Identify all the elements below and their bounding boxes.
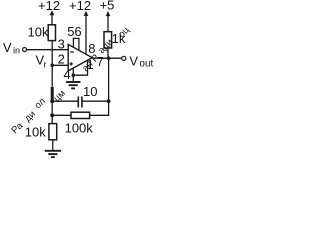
svg-text:r: r (44, 59, 47, 69)
svg-text:ол: ол (33, 96, 48, 111)
svg-text:4: 4 (64, 67, 71, 82)
svg-text:+12: +12 (69, 0, 91, 13)
svg-text:Ра: Ра (10, 120, 26, 136)
svg-text:V: V (129, 53, 138, 68)
svg-text:out: out (139, 59, 153, 70)
svg-text:6: 6 (74, 24, 81, 39)
svg-text:2: 2 (58, 52, 65, 67)
svg-text:3: 3 (58, 37, 65, 52)
svg-text:7: 7 (97, 54, 104, 69)
svg-text:10: 10 (83, 84, 97, 99)
svg-text:10k: 10k (25, 124, 46, 139)
svg-text:+5: +5 (100, 0, 115, 12)
svg-text:1: 1 (87, 57, 94, 72)
svg-text:+12: +12 (38, 0, 60, 13)
svg-text:1k: 1k (112, 31, 126, 46)
svg-text:V: V (3, 40, 12, 55)
svg-text:ди: ди (23, 109, 38, 124)
svg-text:100k: 100k (65, 121, 94, 136)
svg-text:8: 8 (88, 41, 95, 56)
svg-text:in: in (13, 46, 20, 56)
svg-text:10k: 10k (28, 25, 49, 40)
